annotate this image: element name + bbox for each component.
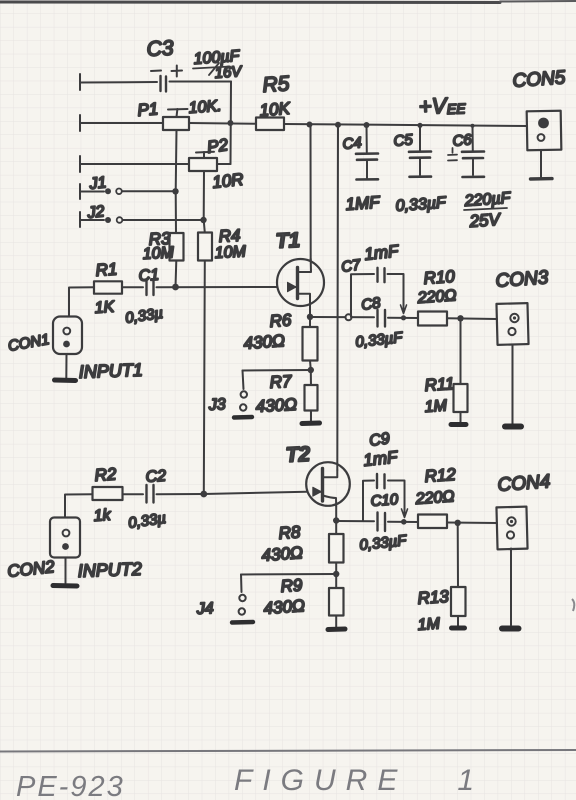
capacitor C7 (351, 268, 407, 317)
node: rail / C6 (471, 124, 475, 128)
svg-text:P1: P1 (137, 99, 159, 120)
resistor R11 (451, 318, 468, 424)
net +VEE label (418, 93, 466, 119)
svg-text:0,33µF: 0,33µF (395, 194, 447, 215)
svg-text:C6: C6 (452, 131, 473, 150)
resistor R9 (328, 574, 345, 630)
wire: +VEE rail from R5 to CON5 (284, 124, 527, 126)
svg-text:10K.: 10K. (188, 98, 222, 117)
svg-text:1mF: 1mF (363, 241, 400, 264)
stray pencil mark right edge (572, 599, 574, 611)
svg-text:R10: R10 (423, 267, 456, 288)
svg-text:220Ω: 220Ω (414, 488, 455, 508)
svg-text:1M: 1M (424, 397, 448, 416)
svg-text:16V: 16V (214, 63, 244, 82)
svg-text:1k: 1k (93, 507, 112, 525)
wire: T2 drain from rail down (336, 125, 339, 470)
node: C7 branch split (346, 314, 352, 320)
svg-text:T2: T2 (285, 443, 311, 467)
svg-text:C1: C1 (138, 267, 160, 285)
svg-text:C9: C9 (368, 430, 391, 450)
svg-text:INPUT1: INPUT1 (78, 360, 143, 382)
resistor R13 (451, 523, 466, 628)
connector CON4 (496, 507, 527, 629)
wire: node to T2 gate (204, 492, 307, 494)
svg-text:R5: R5 (262, 72, 291, 97)
svg-text:C2: C2 (145, 468, 167, 486)
svg-text:T1: T1 (275, 229, 301, 253)
resistor R12 (418, 515, 497, 529)
svg-text:10M: 10M (214, 243, 247, 262)
capacitor C5 (409, 125, 431, 177)
capacitor C9 (363, 474, 408, 521)
svg-text:J4: J4 (195, 600, 214, 618)
wire: C3 row right end down to P2 row (230, 82, 233, 165)
C6 value 220uF / 25V (463, 190, 512, 231)
svg-text:R6: R6 (269, 310, 293, 331)
svg-text:430Ω: 430Ω (255, 395, 297, 416)
capacitor C8 (378, 310, 419, 327)
svg-text:220Ω: 220Ω (416, 287, 457, 307)
resistor R4 (198, 220, 212, 494)
jumper J3 (234, 370, 311, 418)
svg-text:+V: +V (418, 93, 449, 119)
svg-text:C4: C4 (342, 134, 363, 153)
svg-text:430Ω: 430Ω (243, 331, 286, 353)
svg-text:1M: 1M (417, 615, 441, 634)
resistor R1 (69, 281, 143, 316)
node: T2 source / R8 / C10 (333, 517, 339, 523)
figure separator line (0, 750, 576, 752)
svg-text:R12: R12 (424, 465, 457, 486)
resistor R7 (302, 370, 320, 424)
resistor R10 (418, 312, 497, 326)
resistor R5 (256, 118, 284, 131)
node: R6 / R7 / J3 (308, 367, 314, 373)
svg-text:P2: P2 (206, 135, 230, 157)
transistor T2 (306, 462, 350, 506)
potentiometer P2 (80, 152, 231, 220)
svg-text:EE: EE (447, 100, 467, 117)
scan top edge (0, 1, 576, 3)
node: J1 / P1 wiper (172, 188, 178, 194)
connector CON5 (527, 111, 562, 179)
wire: T1 drain to +VEE rail (310, 125, 312, 262)
connector CON1 (53, 317, 82, 381)
svg-text:R8: R8 (278, 522, 302, 543)
svg-text:1MF: 1MF (345, 193, 382, 214)
capacitor C1 (147, 281, 278, 296)
svg-text:J3: J3 (207, 396, 226, 414)
svg-text:R11: R11 (424, 374, 455, 395)
svg-text:FIGURE 1: FIGURE 1 (234, 764, 484, 797)
connector CON2 (50, 518, 80, 587)
svg-text:PE-923: PE-923 (16, 771, 125, 800)
svg-text:J1: J1 (88, 174, 108, 193)
svg-text:R2: R2 (94, 464, 118, 485)
node: J2 / P2 wiper (200, 217, 206, 223)
svg-text:10M: 10M (142, 244, 175, 263)
svg-text:R9: R9 (280, 575, 304, 596)
svg-text:C7: C7 (340, 256, 362, 276)
svg-text:R13: R13 (417, 587, 450, 608)
node: junction P1 row / +VEE column (227, 120, 233, 126)
svg-text:10R: 10R (211, 170, 244, 192)
transistor T1 (277, 259, 324, 306)
wire: T1 source down to node (309, 306, 311, 317)
svg-text:C10: C10 (370, 491, 399, 510)
svg-text:10K: 10K (259, 99, 291, 120)
node: R3 / gate wire (172, 284, 179, 291)
connector CON3 (496, 303, 528, 426)
wire: node to C10 (336, 520, 374, 522)
svg-text:1mF: 1mF (362, 447, 399, 470)
node: rail / C5 (417, 123, 422, 128)
capacitor C10 (378, 513, 419, 532)
jumper J2 (80, 212, 204, 227)
node: C9/C10 rejoin (401, 519, 407, 525)
jumper J4 (232, 574, 336, 623)
C3 value label 100uF/16V (193, 48, 244, 82)
jumper J1 (80, 184, 176, 199)
capacitor C4 (356, 125, 378, 180)
svg-text:INPUT2: INPUT2 (77, 559, 142, 581)
svg-text:220µF: 220µF (463, 190, 512, 210)
node: R12 / R13 (455, 520, 461, 526)
svg-text:CON5: CON5 (512, 67, 567, 92)
svg-text:25V: 25V (468, 210, 502, 231)
svg-text:C5: C5 (393, 131, 414, 150)
capacitor C3 (80, 66, 231, 92)
svg-text:C3: C3 (146, 37, 174, 61)
resistor R8 (329, 521, 344, 574)
resistor R6 (303, 317, 318, 370)
svg-text:430Ω: 430Ω (263, 596, 306, 618)
capacitor C2 (147, 485, 204, 503)
svg-text:R1: R1 (95, 260, 118, 280)
wire: T2 source down to node (335, 506, 337, 521)
node: R10 / R11 (457, 315, 463, 321)
svg-text:R7: R7 (269, 372, 292, 392)
svg-text:CON4: CON4 (497, 471, 551, 496)
node: rail / T2 drain (335, 122, 341, 128)
node: rail / C4 (364, 122, 370, 128)
potentiometer P1 (80, 109, 256, 191)
svg-text:1K: 1K (94, 299, 116, 317)
wire: node to C8 (310, 316, 374, 318)
node: R8 / R9 / J4 (333, 571, 339, 577)
resistor R2 (65, 487, 143, 518)
node: C7/C8 rejoin (401, 315, 406, 320)
svg-text:430Ω: 430Ω (261, 543, 304, 565)
svg-text:J2: J2 (86, 203, 106, 222)
node: rail / T1 drain (307, 122, 313, 128)
svg-text:CON3: CON3 (495, 267, 550, 292)
svg-text:C8: C8 (360, 294, 382, 314)
capacitor C6 (polarized) (448, 126, 484, 177)
resistor R3 (170, 191, 184, 287)
node: T1 source / R6 / C8 (307, 314, 313, 320)
node: R4 column / T2 gate wire (200, 491, 207, 498)
